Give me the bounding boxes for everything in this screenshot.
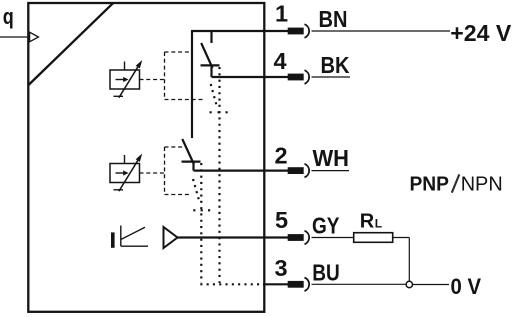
switch S1 output wire (210, 65, 212, 77)
switch S2 blade (182, 139, 194, 164)
P1 arrow foot bar (114, 95, 124, 97)
pin 1 wire (inside box to edge) (191, 30, 288, 32)
svg-text:PNP: PNP (410, 172, 450, 195)
pin 2 wire (inside box to edge) (194, 170, 289, 172)
analog ramp graph vertical axis (120, 226, 122, 247)
P2 dashed vertical (164, 147, 166, 195)
pin 3 wire (box edge to connector) (263, 283, 288, 285)
P1 dashed link to vertical (140, 79, 166, 81)
connector pin 2 plug (288, 164, 309, 178)
wire down from resistor to node (408, 238, 410, 282)
P2 dashed link to vertical (140, 172, 166, 174)
svg-text:1: 1 (275, 1, 288, 27)
svg-text:WH: WH (313, 145, 350, 171)
pin 5 wire (inside box to edge) (178, 236, 289, 238)
svg-text:+24 V: +24 V (450, 20, 512, 46)
svg-text:GY: GY (312, 212, 340, 238)
mechanical link dotted diagonal under S1 (211, 84, 217, 107)
svg-text:L: L (375, 216, 382, 230)
svg-text:BU: BU (312, 260, 340, 286)
connector pin 3 plug (288, 278, 309, 292)
svg-text:3: 3 (275, 255, 288, 281)
BK wire stub (312, 76, 351, 78)
connector pin 5 plug (288, 231, 309, 245)
sensor enclosure box (28, 3, 264, 312)
setpoint adjuster P1 body (110, 70, 140, 89)
connector pin 1 plug (288, 24, 309, 38)
svg-text:2: 2 (275, 143, 288, 169)
internal +24V supply rail vertical wire (191, 31, 193, 138)
resistor right wire (393, 237, 410, 239)
switch S2 output wire (192, 162, 194, 171)
mechanical link dotted vertical from S2 (200, 163, 202, 283)
input arrow wire (0, 36, 29, 38)
amplifier triangle U1 (164, 227, 178, 248)
svg-text:4: 4 (274, 48, 287, 74)
node wire to 0V (413, 284, 449, 286)
mechanical link dotted diagonal under S2 (193, 179, 200, 203)
mechanical link dotted row under S1 (210, 111, 229, 113)
switch S1 stub from rail (210, 31, 212, 43)
svg-text:R: R (360, 210, 375, 232)
GY wire to resistor (312, 237, 355, 239)
mechanical link dotted vertical from S1 (218, 67, 220, 283)
P2 dashed lower link (165, 194, 191, 196)
P1 dashed vertical (164, 52, 166, 100)
setpoint adjuster P2 body (110, 164, 140, 183)
P2 adjustment diagonal arrow (119, 158, 139, 191)
svg-text:NPN: NPN (461, 172, 503, 195)
svg-text:q: q (3, 4, 14, 29)
analog ramp line (121, 227, 145, 239)
P1 top stub (124, 62, 126, 71)
flow sensor diagonal (measuring element) (29, 3, 114, 85)
P2 dashed upper link to S2 (165, 146, 184, 148)
input arrowhead (30, 32, 39, 42)
svg-text:5: 5 (275, 207, 288, 233)
analog ramp graph horizontal axis (121, 245, 148, 247)
P1 dashed upper link to S1 (165, 51, 191, 53)
dotted reference wire to pin 3 (200, 283, 264, 285)
P1 adjustment diagonal arrow (119, 65, 139, 98)
WH wire stub (312, 170, 350, 172)
P2 inner arrow (116, 172, 126, 174)
mechanical link dotted row under S2 (193, 209, 210, 211)
svg-text:BN: BN (319, 6, 348, 32)
svg-text:0 V: 0 V (451, 274, 482, 299)
switch S1 blade (201, 43, 212, 68)
P2 arrow foot bar (114, 189, 124, 191)
P1 dashed lower link (165, 99, 204, 101)
analog output current symbol I (111, 232, 115, 247)
switch S2 contact bar (182, 161, 201, 163)
BU wire to node (312, 283, 407, 285)
slash separator (452, 174, 460, 192)
switch S1 contact bar (201, 64, 220, 66)
svg-text:BK: BK (321, 52, 350, 78)
BN wire to +24V (312, 30, 451, 32)
resistor RL body (354, 233, 393, 243)
pin 4 wire (inside box to edge) (212, 76, 289, 78)
P2 top stub (124, 155, 126, 164)
connector pin 4 plug (288, 70, 309, 84)
P1 inner arrow (116, 79, 126, 81)
node junction circle (406, 281, 412, 287)
